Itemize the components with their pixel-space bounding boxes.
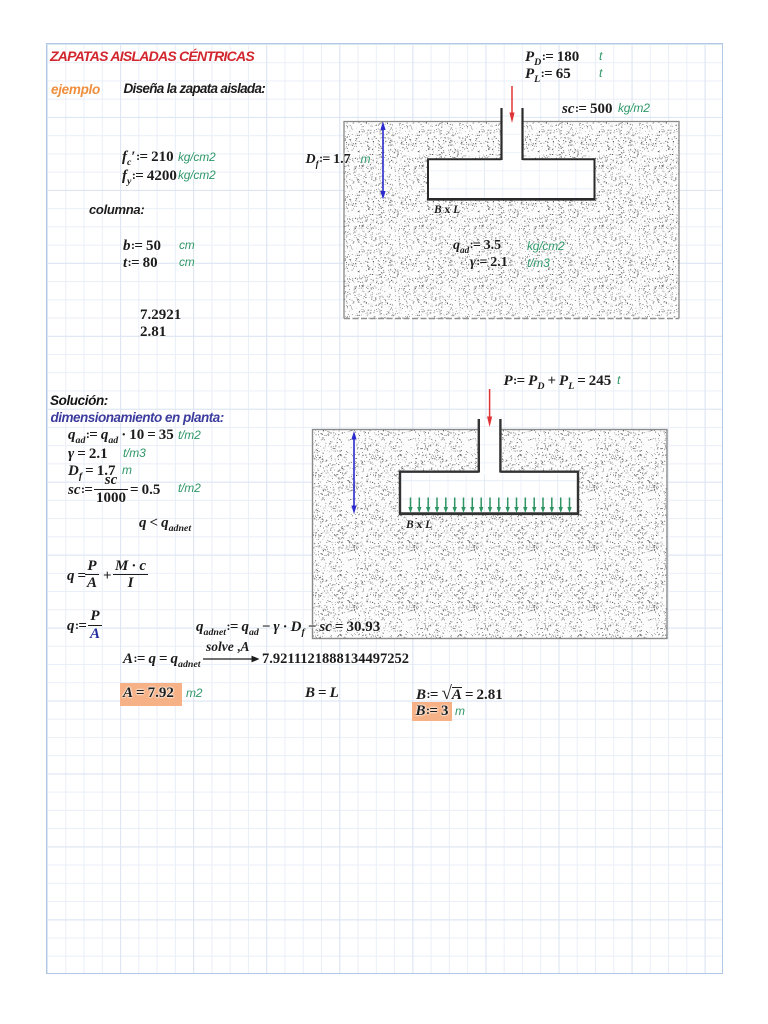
fc := 210 <box>122 149 174 168</box>
solve arrow <box>203 653 261 665</box>
footing outline 1 <box>428 159 595 199</box>
loose number 2.81 <box>140 324 166 341</box>
gamma := 2.1 <box>470 255 508 271</box>
sc := sc/1000 = 0.5 <box>68 482 93 499</box>
footing cutout 2 <box>400 419 578 515</box>
footing cutout 1 <box>428 108 595 200</box>
ejemplo label <box>51 82 100 97</box>
soil block 1 <box>344 122 679 319</box>
subtitle <box>124 81 266 96</box>
loose number 7.2921 <box>140 307 181 324</box>
B = L <box>305 685 339 702</box>
fy := 4200 <box>122 168 177 187</box>
Df := 1.7 m <box>306 152 351 169</box>
P := PD + PL = 245 <box>504 373 612 392</box>
columna: <box>89 203 144 218</box>
gamma = 2.1 <box>68 446 108 463</box>
BxL label 2 <box>406 519 432 532</box>
Df = 1.7 <box>68 463 115 482</box>
b := 50 <box>123 238 161 255</box>
qadnet := qad - gamma*Df - sc = 30.93 <box>196 619 380 638</box>
blue depth arrow 2 <box>353 435 355 511</box>
solve result <box>262 651 409 667</box>
column wall right 1 <box>521 108 523 160</box>
q = P/A + M c / I <box>67 568 86 585</box>
t := 80 <box>123 255 158 272</box>
q < qadnet <box>139 515 191 534</box>
solve,A annotation <box>206 639 250 654</box>
blue depth arrow 1 <box>382 125 384 196</box>
qad := qad*10 = 35 <box>68 427 174 446</box>
soil pressure arrows <box>410 498 412 509</box>
Solución <box>50 393 108 408</box>
PL := 65 t <box>525 66 571 85</box>
column wall left 1 <box>500 108 502 160</box>
footing bottom line 2 <box>399 512 579 515</box>
sc := 500 kg/m2 <box>562 101 612 118</box>
column wall left 2 <box>478 419 480 473</box>
A = 7.92 highlighted <box>120 683 182 706</box>
column wall right 2 <box>499 419 501 473</box>
dimensionamiento en planta <box>51 410 224 425</box>
q := P/A <box>67 618 87 635</box>
footing outline 2 <box>400 472 578 513</box>
BxL label 1 <box>434 204 460 217</box>
footing bottom line 1 <box>427 198 596 201</box>
title <box>50 49 254 65</box>
red load arrow 2 <box>489 389 491 418</box>
PD := 180 t <box>525 49 579 68</box>
B := sqrt(A) = 2.81 <box>416 683 503 704</box>
B := 3 highlighted <box>412 702 452 721</box>
red load arrow 1 <box>511 86 513 114</box>
A := q = qadnet <box>123 651 201 670</box>
qad := 3.5 <box>453 238 501 255</box>
soil block 2 <box>313 430 668 639</box>
